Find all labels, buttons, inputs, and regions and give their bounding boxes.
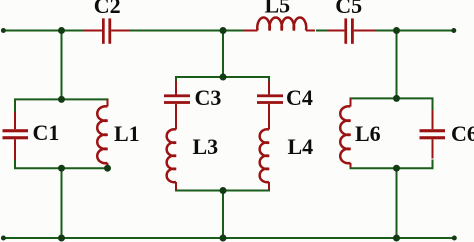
svg-text:C5: C5	[335, 0, 362, 18]
svg-text:L3: L3	[193, 134, 219, 159]
svg-text:L6: L6	[355, 121, 381, 146]
svg-text:C4: C4	[286, 85, 313, 110]
svg-text:L5: L5	[265, 0, 291, 18]
svg-text:C1: C1	[33, 120, 60, 145]
svg-text:L1: L1	[114, 121, 140, 146]
svg-text:C6: C6	[451, 121, 474, 146]
svg-text:C2: C2	[94, 0, 121, 18]
svg-text:L4: L4	[288, 134, 314, 159]
svg-text:C3: C3	[195, 85, 222, 110]
